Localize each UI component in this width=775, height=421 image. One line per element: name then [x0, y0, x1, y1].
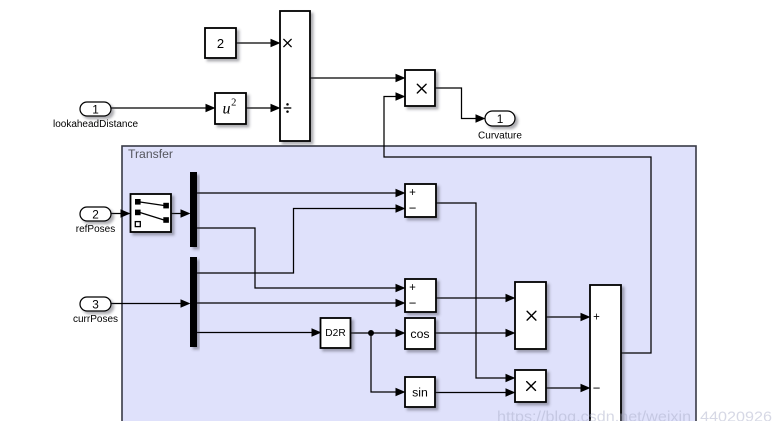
wire junction to sin	[371, 333, 406, 396]
wire cos to product2	[435, 329, 516, 337]
sum S2	[405, 279, 436, 312]
wire demux1 out1 to sum1 plus	[197, 189, 406, 197]
svg-text:refPoses: refPoses	[76, 224, 115, 235]
svg-text:−: −	[409, 296, 417, 311]
svg-text:u: u	[223, 101, 231, 118]
wire sin to product3	[435, 388, 516, 396]
wire demux2 out2 to sum2 minus	[197, 299, 406, 307]
product P1	[405, 70, 435, 106]
svg-text:−: −	[409, 201, 417, 216]
svg-text:lookaheadDistance: lookaheadDistance	[53, 119, 138, 130]
wire product to Curvature	[435, 88, 486, 123]
wire lookaheadDistance to u2	[111, 104, 216, 112]
outport 1 Curvature	[478, 111, 522, 141]
wire demux2 out3 to D2R	[197, 328, 322, 336]
svg-text:2: 2	[217, 36, 224, 51]
constant 2	[205, 28, 236, 58]
add block	[590, 285, 621, 421]
svg-text:3: 3	[92, 297, 99, 311]
product P2	[515, 282, 546, 349]
demux 1	[190, 172, 197, 247]
wire currPoses to demux2	[111, 299, 191, 307]
svg-text:1: 1	[497, 112, 504, 126]
wire product2 to add plus	[546, 313, 591, 321]
svg-text:−: −	[593, 381, 601, 396]
svg-text:https://blog.csdn.net/weixin_4: https://blog.csdn.net/weixin_44020926	[497, 409, 772, 421]
trig cos	[405, 318, 435, 349]
svg-text:Transfer: Transfer	[128, 147, 173, 161]
math function u^2	[215, 93, 246, 124]
svg-text:D2R: D2R	[325, 328, 345, 339]
wire sum2 out to product2	[436, 294, 516, 302]
junction dot on D2R output	[368, 330, 374, 336]
wire u2 to divide	[246, 104, 281, 112]
demux 2	[190, 257, 197, 347]
svg-text:+: +	[409, 187, 416, 199]
divide block	[280, 11, 310, 141]
product P3	[515, 370, 546, 402]
svg-text:+: +	[409, 282, 416, 294]
wire feedback from add output to product second input	[384, 92, 651, 353]
svg-text:2: 2	[92, 207, 99, 221]
svg-text:currPoses: currPoses	[73, 314, 118, 325]
svg-text:Curvature: Curvature	[478, 130, 522, 141]
wire constant to divide	[236, 39, 281, 47]
trig sin	[405, 377, 435, 407]
wire demux1 out2 to sum2 plus	[197, 228, 406, 292]
svg-text:2: 2	[231, 97, 236, 108]
selector block	[131, 194, 172, 232]
wire product3 to add minus	[546, 384, 591, 392]
wire sum1 out to product3	[436, 203, 516, 382]
inport 1 lookaheadDistance	[53, 102, 138, 130]
gain D2R	[321, 318, 351, 348]
area Transfer	[122, 146, 696, 421]
svg-text:cos: cos	[410, 327, 429, 341]
svg-text:+: +	[593, 312, 600, 324]
wire D2R to cos	[350, 329, 406, 337]
inport 3 currPoses	[73, 297, 118, 325]
wire refPoses to selector	[111, 209, 131, 217]
wire demux2 out1 to sum1 minus	[197, 204, 406, 273]
svg-text:1: 1	[92, 102, 99, 116]
sum S1	[405, 184, 436, 217]
svg-text:sin: sin	[412, 386, 428, 400]
wire selector to demux1	[171, 209, 191, 217]
inport 2 refPoses	[76, 207, 115, 235]
wire divide to product	[310, 74, 406, 82]
